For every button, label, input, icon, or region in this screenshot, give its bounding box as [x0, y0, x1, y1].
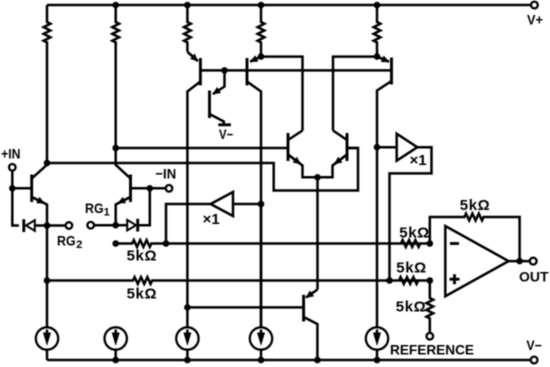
- wire diff emitters down to Q7: [316, 177, 319, 289]
- svg-text:1: 1: [104, 207, 110, 219]
- wire R4 node to diff-left collector: [261, 57, 303, 131]
- node rail dot 3: [258, 2, 265, 9]
- svg-text:RG: RG: [85, 200, 104, 216]
- transistor Q3: [187, 52, 200, 328]
- terminal V- bottom: [526, 338, 542, 363]
- svg-text:REFERENCE: REFERENCE: [390, 343, 474, 358]
- svg-text:5kΩ: 5kΩ: [460, 197, 491, 214]
- svg-text:5kΩ: 5kΩ: [396, 260, 427, 277]
- node R5 emitter dot: [374, 53, 381, 60]
- node Q1 collector dot: [44, 160, 51, 167]
- current source I3: [176, 327, 198, 360]
- transistor Q6: [377, 57, 392, 328]
- wire dot to RG2 terminal: [47, 224, 66, 227]
- diode D1: [24, 219, 47, 232]
- current source I2: [105, 327, 127, 360]
- transistor Q1: [32, 163, 47, 226]
- terminal +IN: [1, 146, 20, 171]
- node RG1 dot: [112, 222, 119, 229]
- svg-text:5kΩ: 5kΩ: [127, 248, 158, 265]
- node -IN dot: [147, 185, 154, 192]
- resistor R5: [374, 5, 381, 57]
- transistor Q4: [247, 57, 261, 328]
- wire top rail V+: [47, 4, 531, 7]
- node RG2 emitter dot: [44, 222, 51, 229]
- terminal -IN: [155, 166, 176, 192]
- terminal RG1: [85, 200, 110, 228]
- node op-minus input dot: [427, 240, 434, 247]
- wire bias base rail: [200, 69, 391, 72]
- node row2 buffer dot: [386, 277, 393, 284]
- buffer A2 x1 right: [377, 134, 432, 281]
- resistor R7 5k row2: [47, 277, 430, 303]
- node A1 input dot: [258, 201, 265, 208]
- transistor Q9 diff pair right: [318, 131, 348, 178]
- svg-text:5kΩ: 5kΩ: [396, 299, 427, 316]
- resistor R4: [258, 5, 265, 57]
- terminal V+: [527, 2, 543, 28]
- node Q2 collector dot: [112, 145, 119, 152]
- node A1 output dot: [163, 240, 170, 247]
- wire R5 node to diff-right collector: [333, 57, 377, 131]
- terminal RG2: [57, 222, 82, 251]
- transistor Q5: [210, 70, 225, 124]
- svg-text:2: 2: [76, 239, 82, 251]
- node row1 left dot: [112, 240, 119, 247]
- resistor R10 5k feedback: [430, 197, 520, 261]
- svg-text:V−: V−: [526, 338, 542, 353]
- transistor Q8 diff pair left: [288, 131, 318, 178]
- node +IN dot: [9, 185, 16, 192]
- terminal OUT: [519, 258, 549, 285]
- transistor Q7: [187, 290, 317, 361]
- resistor R8 5k op-minus: [399, 224, 430, 247]
- node rail bottom dot 1: [112, 357, 119, 364]
- node base rail dot: [221, 67, 228, 74]
- svg-text:V−: V−: [219, 127, 233, 142]
- wire bottom rail V-: [47, 359, 531, 362]
- power V- bar symbol: [218, 125, 233, 142]
- node rail bottom dot 2: [184, 357, 191, 364]
- svg-text:5kΩ: 5kΩ: [127, 286, 158, 303]
- wire Q1 collector to diff-right base (detour): [47, 148, 358, 191]
- node rail bottom dot 5: [374, 357, 381, 364]
- current source I4: [250, 327, 272, 360]
- wire Q2 collector node to diff-left base: [116, 147, 288, 150]
- node rail dot 2: [184, 2, 191, 9]
- wire Q1 emitter column down: [46, 226, 49, 328]
- resistor R2: [112, 5, 119, 148]
- node row2 left dot: [44, 277, 51, 284]
- wire Q2 base: [131, 187, 166, 190]
- svg-text:RG: RG: [57, 232, 76, 248]
- node Q7 base dot: [184, 304, 191, 311]
- current source I1: [36, 327, 58, 360]
- resistor R3: [184, 5, 191, 52]
- node rail dot 1: [112, 2, 119, 9]
- wire diff-right base stub: [347, 147, 358, 150]
- svg-text:OUT: OUT: [519, 269, 549, 285]
- node R4 emitter dot: [258, 53, 265, 60]
- svg-text:5kΩ: 5kΩ: [399, 224, 430, 241]
- wire +IN to Q1 base and D1: [12, 171, 31, 226]
- node rail bottom dot 4: [314, 357, 321, 364]
- svg-text:V+: V+: [527, 13, 543, 28]
- resistor R1: [44, 5, 51, 163]
- svg-text:×1: ×1: [410, 152, 427, 169]
- resistor R6 5k row1: [116, 240, 430, 264]
- transistor Q2: [116, 148, 131, 225]
- current source I5: [366, 327, 388, 360]
- node A2 input dot: [374, 144, 381, 151]
- svg-text:×1: ×1: [203, 211, 220, 228]
- wire Q4 collector column crossing: [260, 204, 263, 327]
- buffer A1 x1 left: [166, 192, 260, 244]
- node diff emitters dot: [314, 174, 321, 181]
- terminal REFERENCE: [390, 333, 474, 358]
- wire RG1 to D2 node: [94, 224, 116, 227]
- diode D2: [116, 188, 150, 231]
- resistor R11 5k reference: [396, 281, 433, 333]
- svg-text:+IN: +IN: [1, 146, 20, 162]
- node op-plus input dot: [427, 277, 434, 284]
- node rail dot 4: [374, 2, 381, 9]
- node output dot: [516, 258, 523, 265]
- node rail bottom dot 3: [258, 357, 265, 364]
- op-amp A3: [445, 226, 530, 296]
- svg-text:−IN: −IN: [155, 166, 176, 182]
- resistor R9 5k op-plus: [396, 260, 427, 284]
